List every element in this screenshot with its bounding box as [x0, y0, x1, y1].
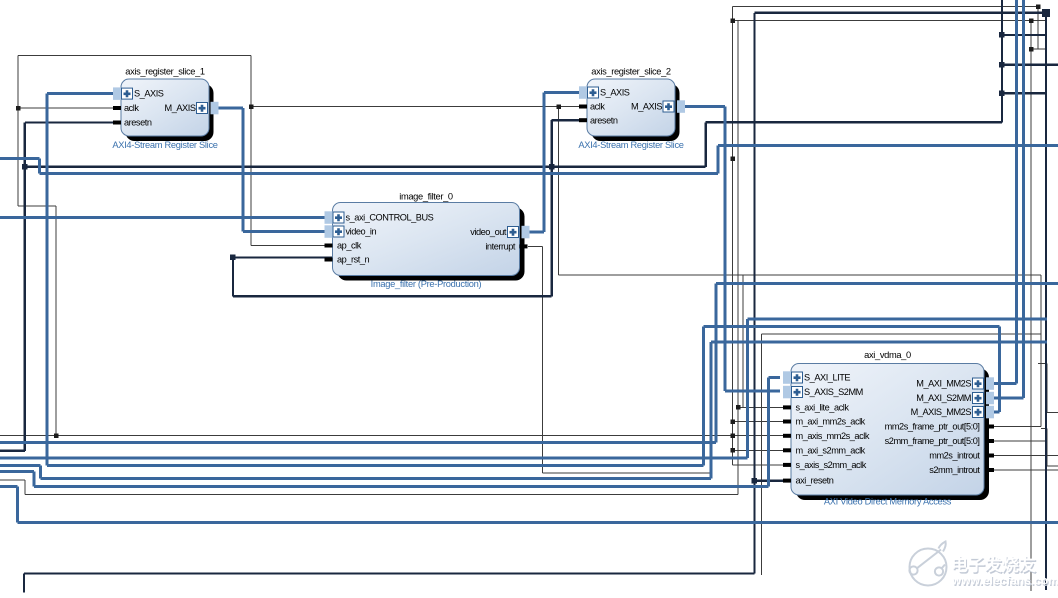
junction dots on ACLK net (thin) — [16, 4, 1040, 452]
svg-text:s_axi_lite_aclk: s_axi_lite_aclk — [796, 403, 850, 413]
svg-text:interrupt: interrupt — [485, 242, 516, 252]
wire net E: blue stream left edge jog to right area — [0, 342, 1047, 479]
svg-text:M_AXIS: M_AXIS — [631, 102, 662, 112]
wire net M_AXI_S2MM: axi_vdma_0 -> top edge — [984, 0, 1024, 398]
svg-text:mm2s_frame_ptr_out[5:0]: mm2s_frame_ptr_out[5:0] — [885, 422, 980, 432]
port aclk (axis_register_slice_1) — [113, 103, 139, 113]
svg-text:m_axi_s2mm_aclk: m_axi_s2mm_aclk — [796, 445, 866, 455]
wire net BOTTOM: blue stream left edge jog to right edge — [0, 486, 1058, 522]
port M_AXIS (axis_register_slice_2, interface output) — [631, 100, 685, 113]
svg-text:s2mm_introut: s2mm_introut — [929, 465, 980, 475]
wire net C: blue stream left edge to right edge — [0, 284, 1058, 443]
wire net B: blue stream from left edge up to right area — [0, 319, 1047, 458]
port M_AXIS (axis_register_slice_1, interface output) — [165, 102, 219, 115]
svg-text:aclk: aclk — [124, 103, 139, 113]
svg-text:M_AXI_S2MM: M_AXI_S2MM — [916, 393, 971, 403]
port mm2s_introut (axi_vdma_0) — [929, 451, 994, 461]
port s_axi_lite_aclk (axi_vdma_0) — [783, 403, 849, 413]
svg-text:s_axis_s2mm_aclk: s_axis_s2mm_aclk — [796, 460, 867, 470]
svg-text:m_axi_mm2s_aclk: m_axi_mm2s_aclk — [796, 417, 866, 427]
port S_AXIS (axis_register_slice_2, interface input) — [579, 86, 630, 99]
port aresetn (axis_register_slice_1) — [113, 118, 152, 128]
port m_axi_mm2s_aclk (axi_vdma_0) — [783, 417, 866, 427]
svg-text:M_AXIS_MM2S: M_AXIS_MM2S — [911, 407, 972, 417]
svg-text:S_AXIS_S2MM: S_AXIS_S2MM — [804, 387, 863, 397]
port ap_rst_n (image_filter_0) — [325, 255, 370, 265]
svg-text:video_in: video_in — [346, 227, 377, 237]
block axis_register_slice_1 — [112, 67, 217, 151]
port m_axi_s2mm_aclk (axi_vdma_0) — [783, 445, 866, 455]
svg-text:ap_rst_n: ap_rst_n — [337, 255, 369, 265]
svg-text:AXI4-Stream Register Slice: AXI4-Stream Register Slice — [112, 140, 217, 150]
svg-text:AXI Video Direct Memory Access: AXI Video Direct Memory Access — [824, 497, 952, 507]
svg-text:axi_vdma_0: axi_vdma_0 — [864, 350, 911, 360]
junction dots on ARESETN net (navy) — [22, 9, 1050, 484]
wire net video_in: axis_register_slice_1 M_AXIS -> image_filter_0 video_in — [214, 108, 333, 232]
svg-text:Image_filter (Pre-Production): Image_filter (Pre-Production) — [371, 279, 482, 289]
wire net interrupt (image_filter interrupt, thin dark) — [528, 246, 711, 473]
wire net video_out: image_filter_0 video_out -> axis_register_slice_2 S_AXIS — [528, 93, 582, 233]
port aclk (axis_register_slice_2) — [579, 102, 605, 112]
svg-text:www.elecfans.com: www.elecfans.com — [951, 574, 1058, 588]
svg-text:aresetn: aresetn — [590, 115, 618, 125]
svg-text:m_axis_mm2s_aclk: m_axis_mm2s_aclk — [796, 431, 870, 441]
port s_axis_s2mm_aclk (axi_vdma_0) — [783, 460, 867, 470]
svg-text:s_axi_CONTROL_BUS: s_axi_CONTROL_BUS — [346, 213, 434, 223]
svg-text:AXI4-Stream Register Slice: AXI4-Stream Register Slice — [578, 140, 683, 150]
wire net VDMA right-side thin outputs (frame_ptr / introut) — [762, 334, 1058, 575]
port S_AXIS (axis_register_slice_1, interface input) — [113, 87, 164, 100]
port video_in (image_filter_0, interface input) — [325, 225, 377, 238]
watermark elecfans logo — [909, 542, 946, 586]
block axi_vdma_0 — [791, 350, 989, 507]
svg-text:M_AXI_MM2S: M_AXI_MM2S — [916, 379, 971, 389]
port aresetn (axis_register_slice_2) — [579, 115, 618, 125]
port M_AXI_S2MM (axi_vdma_0, interface output) — [916, 392, 994, 405]
svg-text:aresetn: aresetn — [124, 118, 152, 128]
port M_AXI_MM2S (axi_vdma_0, interface output) — [916, 377, 994, 390]
port s_axi_CONTROL_BUS (image_filter_0, interface input) — [325, 211, 434, 224]
svg-text:M_AXIS: M_AXIS — [165, 103, 196, 113]
port S_AXIS_S2MM (axi_vdma_0, interface input) — [783, 386, 863, 399]
wire net s_axi_CONTROL_BUS: left edge -> image_filter_0 — [0, 216, 333, 219]
svg-text:axi_resetn: axi_resetn — [796, 476, 834, 486]
wire net G: blue stream left edge jog to right edge — [0, 146, 1058, 174]
port mm2s_frame_ptr_out[5:0] (axi_vdma_0) — [885, 422, 994, 432]
port ap_clk (image_filter_0) — [325, 241, 362, 251]
svg-text:ap_clk: ap_clk — [337, 241, 362, 251]
svg-text:axis_register_slice_1: axis_register_slice_1 — [125, 67, 205, 77]
port s2mm_frame_ptr_out[5:0] (axi_vdma_0) — [885, 436, 994, 446]
wire net S_AXI_LITE: left edge jog to axi_vdma_0 S_AXI_LITE — [0, 378, 780, 487]
svg-text:s2mm_frame_ptr_out[5:0]: s2mm_frame_ptr_out[5:0] — [885, 436, 980, 446]
port axi_resetn (axi_vdma_0) — [783, 476, 834, 486]
port S_AXI_LITE (axi_vdma_0, interface input) — [783, 371, 850, 384]
port video_out (image_filter_0, interface output) — [470, 226, 529, 239]
block image_filter_0 — [333, 192, 525, 290]
svg-text:电子发烧友: 电子发烧友 — [951, 555, 1036, 575]
block axis_register_slice_2 — [578, 67, 683, 151]
svg-text:aclk: aclk — [590, 102, 605, 112]
wire net A: axi_vdma_0 M_AXIS_MM2S -> axis_register_slice_1 S_AXIS (blue stream) — [47, 94, 1000, 466]
wire net D: axis_register_slice_2 M_AXIS -> axi_vdma_0 S_AXIS_S2MM — [683, 107, 780, 391]
svg-text:S_AXIS: S_AXIS — [134, 89, 164, 99]
port m_axis_mm2s_aclk (axi_vdma_0) — [783, 431, 870, 441]
port interrupt (image_filter_0) — [485, 242, 527, 252]
port M_AXIS_MM2S (axi_vdma_0, interface output) — [911, 406, 994, 419]
svg-text:video_out: video_out — [470, 227, 507, 237]
watermark text 电子发烧友 www.elecfans.com — [951, 555, 1058, 590]
svg-text:S_AXI_LITE: S_AXI_LITE — [804, 373, 850, 383]
svg-text:axis_register_slice_2: axis_register_slice_2 — [591, 67, 671, 77]
svg-text:image_filter_0: image_filter_0 — [399, 192, 453, 202]
wire net M_AXI_MM2S: axi_vdma_0 -> top edge — [984, 0, 1017, 384]
port s2mm_introut (axi_vdma_0) — [929, 465, 994, 475]
svg-text:S_AXIS: S_AXIS — [600, 88, 630, 98]
svg-text:mm2s_introut: mm2s_introut — [929, 451, 980, 461]
